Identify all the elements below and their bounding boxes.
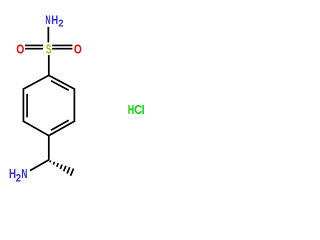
svg-text:H: H <box>51 13 58 27</box>
svg-text:O: O <box>74 41 82 56</box>
svg-text:N: N <box>45 13 50 27</box>
svg-text:2: 2 <box>16 172 21 184</box>
svg-text:S: S <box>46 42 52 57</box>
svg-text:O: O <box>16 41 24 56</box>
svg-text:C: C <box>134 102 142 117</box>
svg-text:N: N <box>21 167 27 181</box>
svg-text:2: 2 <box>58 19 64 30</box>
